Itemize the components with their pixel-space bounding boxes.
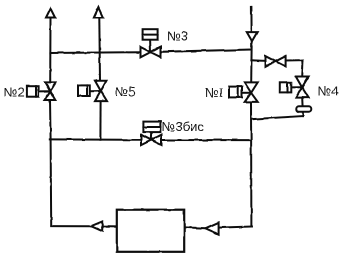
box (apparatus) bbox=[117, 210, 184, 252]
svg-text:№4: №4 bbox=[318, 84, 339, 99]
wire V1 upper segment (left riser above valve N2) bbox=[49, 18, 51, 83]
arrow left (flow into box from right) bbox=[205, 222, 218, 234]
valve N4 actuator stem bbox=[291, 86, 302, 88]
wire H2 right segment bbox=[162, 139, 252, 141]
valve N5 actuator stem bbox=[90, 90, 101, 92]
wire bypass top right segment bbox=[286, 59, 304, 61]
wire V1 lower segment (left riser below valve N2 down to bottom corner) bbox=[50, 100, 51, 225]
valve N4 bowtie bbox=[296, 77, 309, 88]
orifice capsule below valve N4 bbox=[296, 106, 311, 111]
wire from right arrow to box bbox=[184, 226, 205, 229]
valve N2 actuator box bbox=[27, 86, 39, 97]
svg-text:№I: №I bbox=[205, 85, 223, 100]
wire bypass top left segment bbox=[251, 59, 265, 62]
valve N2 actuator stem bbox=[39, 90, 51, 92]
wire V3 segment arrow to valve N1 bbox=[250, 41, 253, 82]
arrow up on left riser bbox=[46, 9, 55, 18]
valve N2 bowtie on left riser bbox=[45, 82, 56, 91]
wire H1 right segment bbox=[161, 50, 252, 52]
valve N3 actuator stem bbox=[149, 40, 151, 52]
wire V2 upper segment (middle riser above valve N5) bbox=[98, 18, 101, 81]
bypass valve bowtie (unlabelled) bbox=[266, 56, 276, 67]
svg-text:№5: №5 bbox=[115, 84, 136, 99]
valve N3bis actuator stem bbox=[150, 132, 152, 140]
wire from box to left arrow bbox=[102, 226, 117, 228]
wire H2 left segment bbox=[50, 138, 141, 140]
wire V3 segment below valve N1 to bottom corner bbox=[250, 102, 252, 226]
valve N1 actuator stem bbox=[240, 92, 251, 94]
valve N3 bowtie bbox=[141, 47, 151, 57]
svg-text:№3: №3 bbox=[167, 28, 188, 43]
arrow down on main riser bbox=[247, 32, 257, 41]
svg-text:№2: №2 bbox=[4, 85, 25, 100]
valve N3 actuator box bbox=[143, 29, 158, 40]
valve N5 actuator box bbox=[78, 85, 90, 96]
svg-text:№3бис: №3бис bbox=[162, 119, 205, 134]
wire H1 left segment bbox=[50, 51, 140, 54]
wire V2 lower segment (middle riser below valve N5 to line H2) bbox=[99, 101, 101, 140]
wire bottom-right horizontal from main riser corner bbox=[219, 227, 251, 228]
wire V3 top segment (main right riser above arrow) bbox=[250, 6, 252, 32]
valve N3bis bowtie bbox=[141, 135, 151, 145]
wire V4 below valve N4 bbox=[301, 98, 304, 117]
wire bypass bottom segment bbox=[252, 116, 303, 119]
valve N1 bowtie on main riser bbox=[245, 82, 258, 92]
arrow left (flow into left riser) bbox=[91, 222, 102, 232]
valve N5 bowtie on middle riser bbox=[95, 81, 106, 91]
valve N4 actuator box bbox=[280, 82, 292, 92]
wire bottom-left horizontal to pump arrow bbox=[51, 225, 91, 227]
arrow up on middle riser bbox=[94, 8, 103, 18]
wire V4 upper segment (bypass branch down to valve N4) bbox=[301, 60, 304, 76]
valve N3bis actuator box bbox=[143, 122, 160, 133]
valve N1 actuator box bbox=[229, 87, 242, 98]
